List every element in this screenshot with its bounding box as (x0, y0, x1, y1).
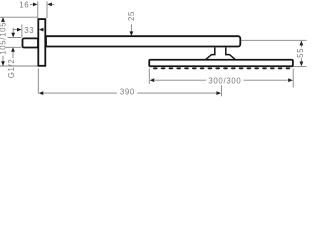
dimension 390 (arm length to spray center) (38, 68, 221, 96)
dimension 25 (arm height) (130, 24, 132, 32)
wall stub pipe (G1/2 connector) (23, 38, 39, 47)
svg-text:25: 25 (127, 11, 136, 21)
dimension 105/105 (plate height, left) (0, 17, 37, 66)
shower arm (46, 36, 240, 46)
dimension 300/300 (head width) (149, 69, 293, 88)
svg-text:300/300: 300/300 (208, 76, 241, 85)
dimension 55 (right side) (241, 40, 306, 66)
svg-text:55: 55 (296, 48, 305, 58)
dimension 33 (stub length) (13, 24, 22, 37)
svg-text:G1/2: G1/2 (7, 59, 16, 79)
svg-text:33: 33 (24, 26, 34, 35)
connector neck (205, 48, 236, 61)
svg-text:16: 16 (19, 1, 29, 10)
shower head (149, 60, 293, 67)
G1/2 thread callout (5, 28, 22, 59)
svg-text:390: 390 (120, 87, 135, 96)
escutcheon plate (38, 19, 45, 66)
dimension 16 (plate thickness) (30, 1, 55, 18)
nozzles (153, 67, 290, 69)
svg-text:105/105: 105/105 (0, 22, 8, 55)
